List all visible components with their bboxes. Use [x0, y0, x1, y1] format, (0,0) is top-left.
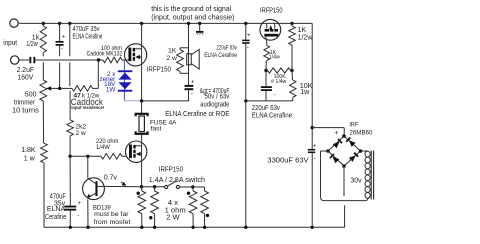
svg-text:input resistence!: input resistence! [71, 105, 104, 110]
svg-text:ELNA Cerafine: ELNA Cerafine [204, 52, 237, 59]
svg-text:220uF 63v: 220uF 63v [216, 44, 237, 51]
svg-text:+: + [191, 79, 195, 85]
svg-text:26MB60: 26MB60 [349, 130, 372, 137]
svg-text:3300uF 63V: 3300uF 63V [267, 155, 308, 164]
svg-text:-: - [61, 46, 63, 53]
svg-text:1 w: 1 w [24, 156, 36, 163]
svg-text:from mosfet: from mosfet [94, 219, 131, 226]
svg-text:1w: 1w [300, 87, 310, 96]
svg-text:2 w: 2 w [166, 55, 177, 62]
svg-text:audiograde: audiograde [200, 102, 229, 109]
svg-text:+: + [62, 35, 66, 41]
svg-text:ELNA Cerafine: ELNA Cerafine [252, 113, 292, 120]
svg-text:(input, output and chassie): (input, output and chassie) [151, 12, 234, 21]
svg-text:1/2w: 1/2w [298, 35, 314, 42]
svg-text:+: + [335, 130, 339, 137]
svg-text:2 w: 2 w [76, 130, 86, 137]
svg-text:30v: 30v [350, 178, 362, 185]
svg-text:470uF 35v: 470uF 35v [73, 26, 100, 33]
svg-text:+: + [78, 201, 82, 207]
svg-text:IRFP150: IRFP150 [260, 6, 283, 15]
svg-text:# 1/4w: # 1/4w [271, 79, 287, 85]
svg-text:1/4W: 1/4W [96, 144, 110, 151]
svg-text:IRFP150: IRFP150 [147, 64, 171, 73]
svg-text:2 W: 2 W [166, 213, 180, 222]
svg-text:-: - [191, 90, 193, 97]
svg-text:1/4w: 1/4w [269, 55, 280, 61]
svg-text:1K: 1K [298, 27, 307, 34]
svg-text:160V: 160V [18, 74, 34, 81]
svg-text:-: - [77, 212, 79, 219]
svg-text:Caddok MK132: Caddok MK132 [87, 50, 123, 57]
svg-text:ELNA Cerafine: ELNA Cerafine [73, 34, 103, 41]
svg-text:IRFP150: IRFP150 [159, 164, 183, 173]
svg-text:+: + [313, 143, 317, 149]
svg-text:-: - [247, 44, 249, 51]
svg-text:1.8K: 1.8K [21, 147, 36, 154]
svg-text:+: + [247, 33, 251, 39]
svg-text:ELNA Cerafine or ROE: ELNA Cerafine or ROE [165, 109, 229, 118]
svg-text:0.7v: 0.7v [104, 175, 118, 182]
svg-text:2.2uF: 2.2uF [17, 67, 34, 74]
svg-text:must be far: must be far [94, 211, 129, 218]
svg-text:-: - [314, 155, 316, 162]
svg-text:-: - [274, 92, 276, 99]
svg-text:input: input [3, 40, 17, 47]
svg-text:1W: 1W [106, 87, 116, 94]
svg-text:1K: 1K [168, 47, 177, 54]
svg-text:1.4A / 2.8A switch: 1.4A / 2.8A switch [149, 175, 205, 184]
svg-text:Cerafine: Cerafine [45, 214, 66, 221]
svg-text:220uF 63v: 220uF 63v [252, 105, 281, 112]
svg-text:IRF: IRF [349, 121, 358, 128]
svg-text:10 turns: 10 turns [12, 107, 39, 114]
svg-text:ELNA: ELNA [47, 206, 66, 213]
svg-text:trimmer: trimmer [14, 100, 36, 107]
svg-text:500: 500 [25, 91, 37, 98]
svg-text:50v / 63v: 50v / 63v [204, 94, 229, 101]
svg-text:fast: fast [151, 125, 162, 132]
svg-text:1/2w: 1/2w [26, 41, 38, 48]
